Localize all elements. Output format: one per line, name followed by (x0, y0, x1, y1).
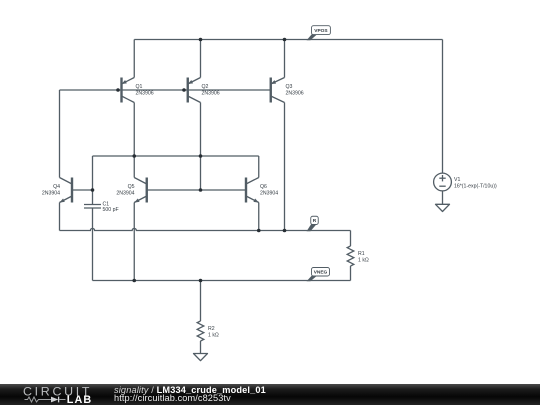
wire V1 top lead (442, 40, 444, 174)
wire VPOS top rail (134, 39, 442, 41)
svg-text:V1: V1 (454, 177, 460, 183)
resistor R2 (197, 321, 204, 341)
svg-text:Q1: Q1 (136, 84, 143, 90)
node flag R (307, 224, 318, 232)
junction dots (199, 38, 203, 42)
resistor R1 (347, 246, 354, 266)
svg-text:VNEG: VNEG (314, 269, 328, 275)
svg-text:16*(1-exp(-T/10u)): 16*(1-exp(-T/10u)) (454, 183, 497, 189)
wire R rail with hops (60, 228, 351, 230)
wire C1 top lead (92, 156, 94, 204)
resistor R1 leads (350, 231, 352, 247)
svg-text:Q3: Q3 (286, 84, 293, 90)
svg-text:LAB: LAB (67, 394, 93, 405)
svg-text:Q2: Q2 (202, 84, 209, 90)
svg-text:R2: R2 (208, 326, 215, 332)
wire Q6 emitter drop (258, 203, 260, 231)
CircuitLab logo (23, 385, 92, 405)
svg-text:2N3904: 2N3904 (42, 190, 60, 196)
svg-text:2N3904: 2N3904 (116, 190, 134, 196)
wire Q1 emitter riser (133, 40, 135, 78)
svg-text:Q5: Q5 (128, 184, 135, 190)
wire Q5 collector riser (133, 156, 135, 178)
wire Q1 collector drop (133, 103, 135, 157)
wire V1 bottom lead (442, 191, 444, 204)
wire C1 bottom lead (92, 208, 94, 281)
transistor Q3 2N3906 (271, 78, 285, 103)
capacitor C1 (84, 205, 101, 209)
wire Q4 base stub (72, 189, 93, 191)
wire Q4 emitter drop (59, 203, 61, 231)
svg-text:2N3906: 2N3906 (136, 90, 154, 96)
transistor Q6 2N3904 (246, 178, 259, 203)
svg-text:Q6: Q6 (260, 184, 267, 190)
svg-text:R1: R1 (358, 251, 365, 257)
wire Q4 collector riser (59, 90, 61, 178)
svg-text:2N3906: 2N3906 (286, 90, 304, 96)
wire PNP base rail (60, 89, 271, 91)
svg-text:1 kΩ: 1 kΩ (358, 257, 369, 263)
svg-text:http://circuitlab.com/c8253tv: http://circuitlab.com/c8253tv (114, 393, 231, 403)
wire Q6 collector riser (258, 156, 260, 178)
svg-text:R: R (313, 218, 317, 224)
svg-text:1 kΩ: 1 kΩ (208, 332, 219, 338)
transistor Q1 2N3906 (122, 78, 135, 103)
node flag VNEG (307, 275, 318, 281)
node flag VPOS (307, 34, 318, 41)
wire Q3 emitter riser (284, 40, 286, 78)
footer bar (0, 384, 540, 405)
svg-text:Q4: Q4 (53, 184, 60, 190)
wire mid collector rail (93, 155, 259, 157)
resistor R2 leads (200, 281, 202, 322)
wire Q2 collector drop (200, 103, 202, 191)
wire Q3 collector drop (284, 103, 286, 231)
transistor Q5 2N3904 (134, 178, 147, 203)
wire Q5 emitter drop (133, 203, 135, 281)
voltage source V1 (434, 173, 452, 191)
ground under R2 (194, 354, 208, 361)
transistor Q2 2N3906 (188, 78, 201, 103)
svg-text:500 pF: 500 pF (103, 207, 119, 213)
svg-text:VPOS: VPOS (314, 28, 328, 34)
ground under V1 (436, 204, 450, 211)
svg-text:2N3904: 2N3904 (260, 190, 278, 196)
transistor Q4 2N3904 (60, 178, 73, 203)
wire Q2 emitter riser (200, 40, 202, 78)
wire VNEG rail (93, 280, 351, 282)
svg-text:2N3906: 2N3906 (202, 90, 220, 96)
wire Q5 Q6 base rail (147, 189, 246, 191)
